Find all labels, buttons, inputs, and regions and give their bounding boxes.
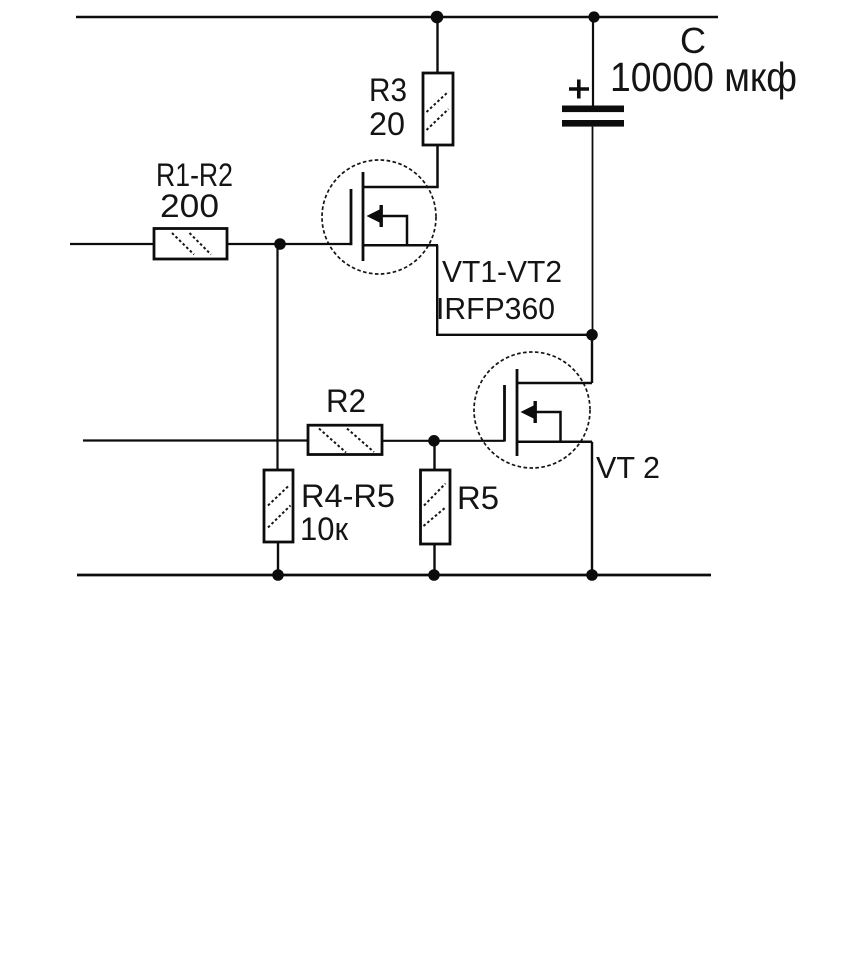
VT2 body-source link with arrow xyxy=(536,412,561,442)
resistor R4-R5 xyxy=(264,470,293,542)
node junction gate / R4 divider xyxy=(274,238,286,250)
svg-text:R4-R5: R4-R5 xyxy=(301,478,395,514)
resistor R2 xyxy=(308,425,382,454)
VT1 body-source link with arrow xyxy=(382,216,407,245)
svg-text:R3: R3 xyxy=(369,72,407,108)
node junction VT1-source / right rail xyxy=(586,329,598,341)
wire R2 to VT2 gate xyxy=(382,440,505,442)
svg-text:IRFP360: IRFP360 xyxy=(436,291,555,326)
VT2 gate plate xyxy=(503,385,506,442)
VT1 body circle xyxy=(322,160,436,274)
node junction top R3 xyxy=(431,11,444,24)
wire input left to R1-R2 xyxy=(70,243,154,245)
VT1 gate plate xyxy=(350,189,353,245)
resistor R1-R2 xyxy=(154,229,227,260)
node junction ground R4-R5 xyxy=(272,569,284,581)
VT2 drain line xyxy=(517,382,592,385)
svg-text:10000 мкф: 10000 мкф xyxy=(610,54,797,100)
wire input middle to R2 xyxy=(83,439,308,441)
svg-text:R2: R2 xyxy=(326,383,366,419)
node junction ground R5 xyxy=(428,569,440,581)
VT2 channel line xyxy=(516,369,519,456)
wire R3 top stub xyxy=(436,17,438,73)
wire top +V rail xyxy=(76,16,718,19)
resistor R3 xyxy=(423,73,453,145)
wire R3 bottom to VT1 drain xyxy=(363,145,438,187)
wire R4-R5 bottom stub xyxy=(277,542,279,575)
C bottom plate xyxy=(562,120,624,127)
VT1 channel line xyxy=(362,172,365,261)
resistor R5 xyxy=(421,470,451,544)
C plus sign xyxy=(569,87,589,91)
svg-text:VT 2: VT 2 xyxy=(596,450,660,485)
node junction R2 / R5 xyxy=(428,435,440,447)
wire rail to C top plate xyxy=(592,17,594,106)
node junction top capacitor xyxy=(588,11,599,22)
VT2 source line xyxy=(517,441,592,444)
transistor VT2 xyxy=(474,352,592,468)
svg-text:20: 20 xyxy=(369,106,405,142)
VT2 body circle xyxy=(474,352,590,468)
VT1 source line xyxy=(363,244,438,247)
wire R5 bottom stub xyxy=(433,544,435,575)
transistor VT1 xyxy=(322,160,438,274)
wire gate node down to R4-R5 xyxy=(276,244,278,470)
svg-text:VT1-VT2: VT1-VT2 xyxy=(442,254,562,289)
wire right rail junction down to VT2 drain xyxy=(591,335,593,383)
C top plate xyxy=(562,106,624,113)
wire VT1 source down and across to right rail xyxy=(437,245,592,335)
wire R1-R2 to VT1 gate xyxy=(227,243,351,245)
wire bottom ground rail xyxy=(77,574,711,577)
svg-text:R5: R5 xyxy=(457,480,499,516)
node junction ground right rail xyxy=(586,569,598,581)
svg-text:10к: 10к xyxy=(300,511,349,547)
capacitor C xyxy=(562,17,624,335)
wire junction down to R5 xyxy=(433,441,435,470)
wire VT2 source down to ground rail xyxy=(591,442,593,575)
svg-text:200: 200 xyxy=(160,188,219,224)
wire C bottom plate down xyxy=(592,127,594,335)
